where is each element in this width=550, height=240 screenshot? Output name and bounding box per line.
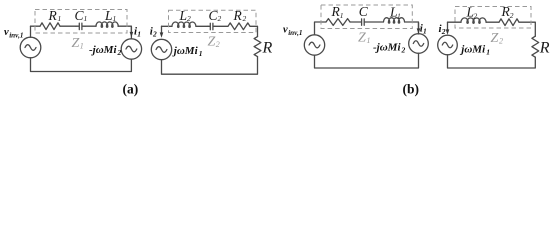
dashed impedance boxes [35,5,531,33]
svg-text:L: L [104,8,113,23]
box Z1 (b) [321,5,412,29]
resistor R1 [40,23,60,30]
svg-text:2: 2 [117,48,122,57]
svg-text:1: 1 [486,48,490,57]
svg-text:1: 1 [80,42,84,51]
box Z2 (b) [455,7,531,29]
current arrow i1 [418,23,420,29]
voltage source Vinv,1 [20,37,41,58]
svg-text:C: C [359,4,369,19]
dependent source jwMi1 [438,35,458,55]
svg-text:jωMi: jωMi [459,44,486,56]
svg-text:2: 2 [401,46,406,55]
wire bottom loop a2 [162,57,258,75]
resistor R2 [228,23,250,30]
svg-text:R: R [48,8,58,23]
svg-text:1: 1 [58,14,62,23]
current arrow i2 [161,26,163,32]
svg-text:Z: Z [72,36,80,51]
resistor R2 [499,19,519,26]
wire riser + top loop a2 [162,26,258,36]
inductor L1 [384,18,405,23]
svg-text:R: R [233,8,243,23]
svg-text:(a): (a) [123,81,139,96]
svg-text:1: 1 [199,49,203,58]
load resistor R (vertical) [254,37,261,57]
svg-text:2: 2 [243,14,247,23]
inductor L2 [172,22,196,27]
svg-text:-jωMi: -jωMi [89,44,117,56]
svg-text:2: 2 [187,14,191,23]
svg-text:1: 1 [367,36,371,45]
wire riser left top [30,26,32,37]
svg-text:R: R [539,40,550,57]
capacitor C1 [76,23,85,29]
capacitor C [362,19,365,25]
svg-text:1: 1 [84,14,88,23]
svg-text:inv,1: inv,1 [288,29,302,37]
current arrow i1 [130,27,132,32]
inductor L2 [461,18,486,23]
svg-text:R: R [262,40,273,57]
svg-text:1: 1 [340,11,344,20]
svg-text:1: 1 [113,14,117,23]
svg-text:2: 2 [499,37,503,46]
svg-text:2: 2 [218,14,222,23]
svg-text:L: L [179,8,188,23]
wire bottom loop b1 [315,53,419,68]
svg-text:2: 2 [441,27,446,36]
wire riser + top loop b1 [315,22,419,35]
capacitor C2 [208,23,215,29]
svg-text:Z: Z [208,35,216,50]
svg-text:2: 2 [474,12,478,21]
dependent source -jwMi2 [121,39,141,59]
wire riser + top loop b2 [448,22,536,36]
svg-text:1: 1 [423,27,427,36]
wire bottom loop a1 [31,58,132,72]
svg-text:inv,1: inv,1 [9,32,23,40]
svg-text:2: 2 [216,40,220,49]
wire bottom loop b2 [448,55,536,68]
dependent source jwMi1 [151,39,171,59]
svg-text:Z: Z [491,31,499,46]
dependent source -jwMi2 [409,34,429,54]
voltage source Vinv,1 [304,35,324,55]
svg-text:2: 2 [152,30,157,39]
svg-text:(b): (b) [403,81,420,96]
box Z1 (a) [35,10,127,34]
box Z2 (a) [169,10,257,32]
load resistor R (vertical) [532,36,539,57]
svg-text:1: 1 [137,30,141,39]
svg-text:-jωMi: -jωMi [373,42,401,54]
svg-text:1: 1 [397,12,401,21]
svg-text:Z: Z [358,31,366,46]
wire top loop a1 [31,26,132,39]
current arrow i2 [447,22,449,29]
svg-text:jωMi: jωMi [172,45,199,57]
resistor R1 [326,19,350,26]
svg-text:2: 2 [510,11,514,20]
inductor L1 [96,22,118,27]
